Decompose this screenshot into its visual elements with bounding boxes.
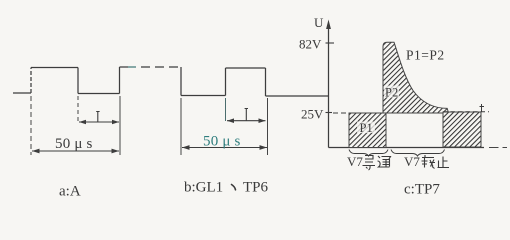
small width arrow of B [227,118,266,123]
x-axis [329,147,485,149]
halo behind P2 [384,86,399,98]
dimension extension line left (x=31) [30,96,32,155]
hatched block P1 left [349,113,386,148]
waveform A rising edge 2 [119,67,121,94]
y-axis arrowhead [326,20,331,30]
CJK tong (pass) glyph [378,156,391,167]
small vertical dash right of block [480,104,485,112]
waveform B low segment [181,95,226,97]
dashed 25V level over right block [443,111,489,113]
waveform A low segment [78,93,120,95]
y-axis u [328,28,330,148]
underbrace V7 cutoff [391,150,445,157]
50us arrow of A [32,149,119,154]
tick mark on B small arrow [245,109,248,121]
82V tick [326,42,335,44]
dashed extension from falling edge (x=78) [77,96,79,122]
teal tint dash on link line [128,66,136,68]
svg-text:U: U [314,15,324,30]
hatched spike P2 [383,42,449,113]
dimension extension line right B (x=266.5) [267,98,269,155]
svg-text:b:GL1: b:GL1 [184,180,223,196]
underbrace V7 conducting [349,150,388,157]
50us arrow of B [182,145,267,150]
hatched block right [443,112,481,147]
waveform A rising edge 1 [30,68,32,94]
svg-text:50 μ s: 50 μ s [203,134,241,150]
small width arrow of A [79,120,119,125]
CJK comma in caption b [232,185,236,190]
halo behind P1 [357,122,375,134]
CJK jie (cut) glyph [422,155,436,169]
svg-text:50 μ s: 50 μ s [55,136,93,152]
waveform B rising edge [225,68,227,96]
25V dashed line to strip [333,112,349,114]
CJK zhi (stop) glyph [438,157,450,168]
waveform A falling edge [77,68,79,94]
svg-text:a:A: a:A [59,184,81,200]
waveform B low line to axis [266,95,329,97]
svg-text:82V: 82V [299,37,322,52]
waveform A high segment 2 [120,66,128,68]
svg-text:c:TP7: c:TP7 [404,182,440,198]
waveform B high segment [226,67,266,69]
svg-text:V7: V7 [404,154,420,169]
waveform B falling edge 1 [180,67,182,96]
svg-text:TP6: TP6 [243,180,269,196]
waveform A high segment 1 [31,67,78,69]
svg-text:P2: P2 [385,86,398,100]
x-axis dashed continuation [489,147,507,149]
svg-text:P1: P1 [360,121,373,135]
tick mark on A small arrow [96,112,99,123]
svg-text:25V: 25V [301,107,324,122]
svg-text:P1=P2: P1=P2 [406,48,445,63]
CJK dao (lead) glyph [363,156,376,171]
dimension extension line left B (x=181) [180,98,182,155]
dashed link line A to B [127,66,181,68]
extension from rising edge B (x=225.5) [225,98,227,121]
waveform B falling edge 2 [265,68,267,96]
25V tick [326,112,333,114]
dimension extension line right (x=120) [119,96,121,155]
svg-text:V7: V7 [347,154,363,169]
waveform A entry baseline [13,92,31,94]
